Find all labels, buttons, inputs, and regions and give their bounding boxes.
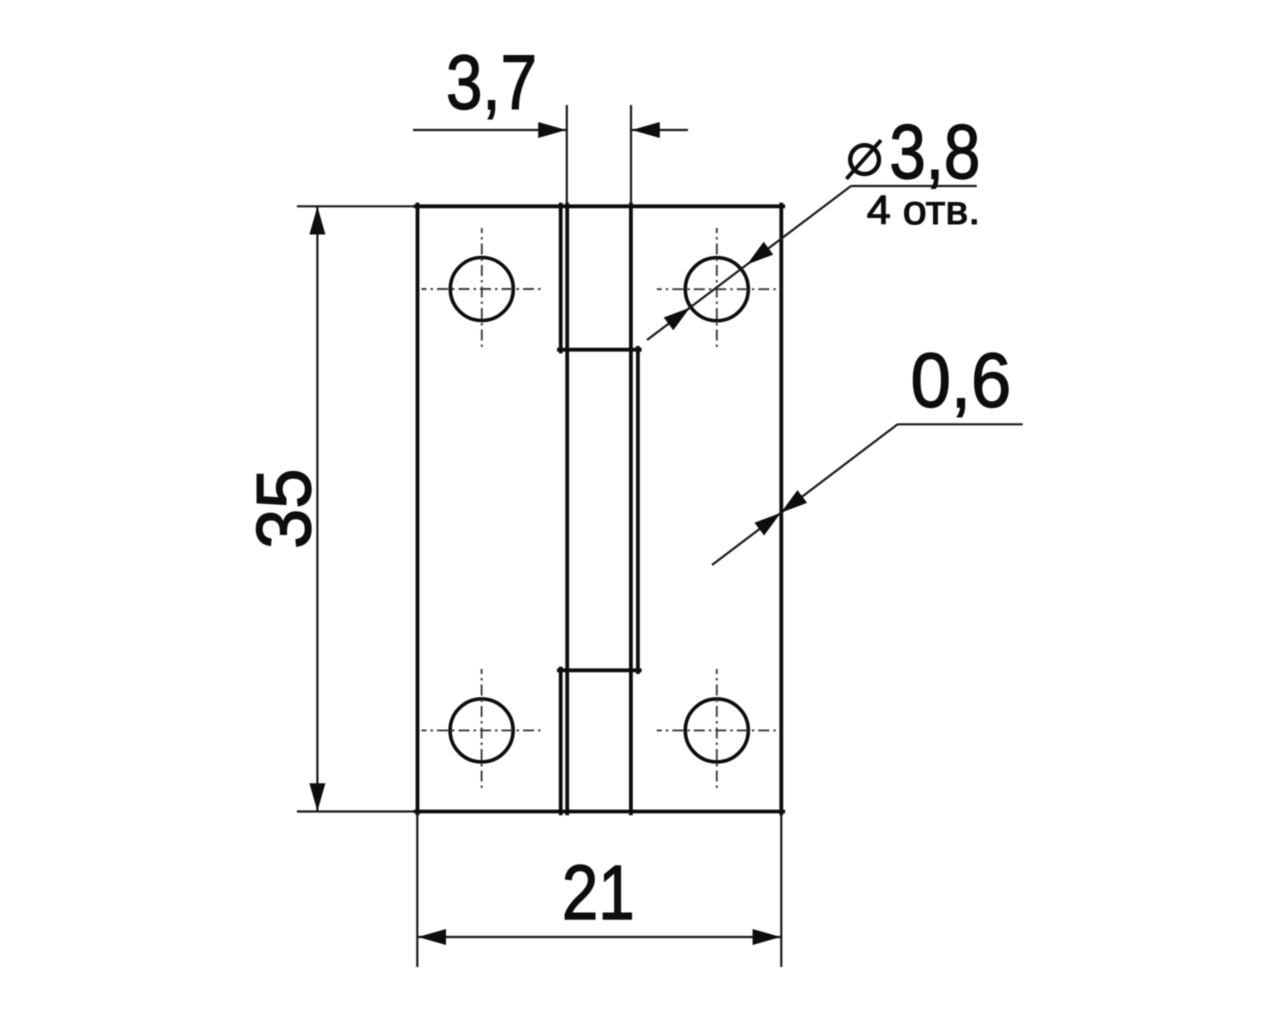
svg-text:3,7: 3,7 [446, 40, 537, 126]
svg-text:4 отв.: 4 отв. [867, 187, 980, 233]
svg-text:35: 35 [240, 468, 327, 549]
svg-text:21: 21 [562, 850, 635, 936]
svg-text:3,8: 3,8 [889, 110, 980, 196]
svg-text:0,6: 0,6 [911, 337, 1012, 424]
